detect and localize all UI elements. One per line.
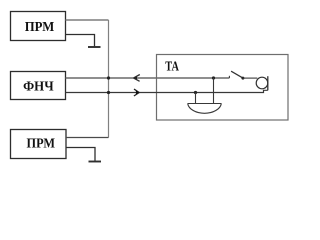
svg-text:ФНЧ: ФНЧ <box>23 79 54 94</box>
junction dot trunk/line1 <box>107 76 110 79</box>
junction dot line1/bell right stub <box>212 76 215 79</box>
svg-text:ПРМ: ПРМ <box>25 20 55 35</box>
wire from PRM top to trunk <box>66 19 109 21</box>
wire PRM top to ground <box>66 35 95 47</box>
wire line 2 (lower, FNCH to phone capsule) <box>66 90 268 92</box>
bell (ringer) <box>188 104 222 114</box>
ground bottom <box>89 161 102 163</box>
svg-text:ПРМ: ПРМ <box>27 137 56 152</box>
arrow right on line 2 <box>134 89 140 96</box>
wire trunk vertical <box>108 20 110 138</box>
switch fixed contact tick <box>228 76 230 78</box>
block TA box <box>157 55 289 121</box>
block FNCH <box>11 72 66 100</box>
telephone capsule circle <box>256 77 268 89</box>
bell left stub <box>195 93 197 104</box>
switch lever <box>231 71 242 78</box>
wire switch to capsule <box>243 77 257 79</box>
ground top <box>88 46 101 48</box>
arrow left on line 1 <box>133 75 140 82</box>
wire trunk to PRM bottom <box>66 137 109 139</box>
bell right stub <box>213 78 215 104</box>
junction dot line2/bell left stub <box>194 91 197 94</box>
block PRM bottom <box>11 130 67 159</box>
svg-text:ТА: ТА <box>165 60 179 75</box>
capsule flat bar <box>267 76 269 90</box>
wire line 1 (upper, FNCH to switch) <box>66 77 230 79</box>
junction dot trunk/line2 <box>107 91 110 94</box>
switch contact dot <box>241 77 244 80</box>
block PRM top <box>11 12 66 41</box>
wire PRM bottom to ground <box>66 148 96 161</box>
